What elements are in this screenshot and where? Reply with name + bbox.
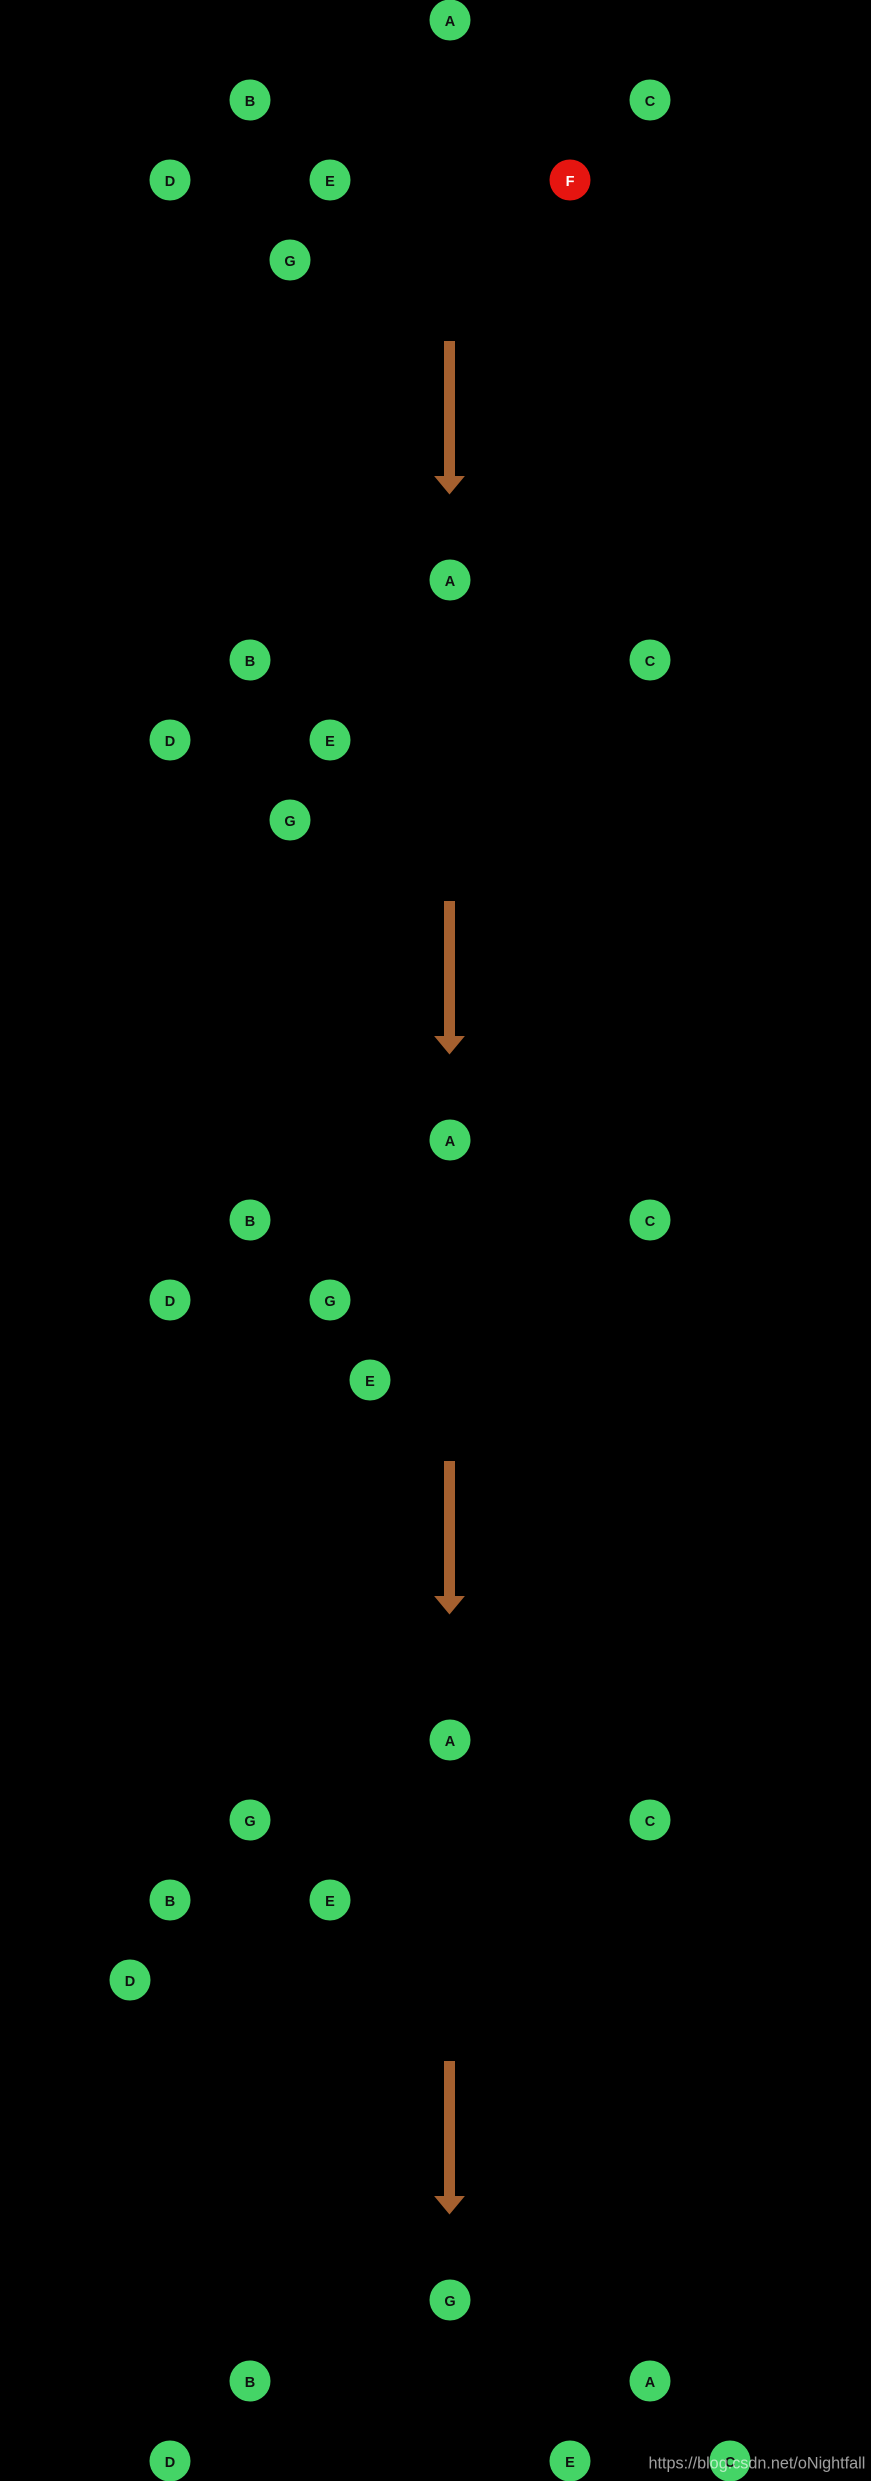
tree 1 node F (red) xyxy=(550,160,591,201)
svg-text:D: D xyxy=(125,1974,135,1990)
tree 3 node C xyxy=(630,1200,671,1241)
tree 5 node A xyxy=(630,2361,671,2402)
tree 4 node A xyxy=(430,1720,471,1761)
svg-text:C: C xyxy=(645,654,656,670)
svg-text:B: B xyxy=(245,1214,255,1230)
tree 1 node D xyxy=(150,160,191,201)
tree 1 node E xyxy=(310,160,351,201)
tree 5 node B xyxy=(230,2361,271,2402)
tree 2 node G xyxy=(270,800,311,841)
svg-text:B: B xyxy=(245,94,255,110)
svg-text:G: G xyxy=(324,1294,335,1310)
svg-text:G: G xyxy=(284,254,295,270)
tree 4 node E xyxy=(310,1880,351,1921)
svg-text:D: D xyxy=(165,174,175,190)
svg-text:C: C xyxy=(645,1814,656,1830)
svg-text:E: E xyxy=(365,1374,375,1390)
arrow 2 xyxy=(434,901,465,1055)
svg-text:A: A xyxy=(445,14,456,30)
svg-text:E: E xyxy=(325,174,335,190)
tree 2 node E xyxy=(310,720,351,761)
tree 3 node A xyxy=(430,1120,471,1161)
svg-text:E: E xyxy=(325,1894,335,1910)
tree 1 node G xyxy=(270,240,311,281)
svg-text:A: A xyxy=(645,2375,656,2391)
tree 2 node C xyxy=(630,640,671,681)
svg-text:B: B xyxy=(165,1894,175,1910)
tree 5 node E xyxy=(550,2441,591,2481)
tree 3 node B xyxy=(230,1200,271,1241)
tree 4 node B xyxy=(150,1880,191,1921)
svg-text:A: A xyxy=(445,574,456,590)
arrow 4 xyxy=(434,2061,465,2215)
arrow 1 xyxy=(434,341,465,495)
svg-text:B: B xyxy=(245,2375,255,2391)
tree 1 node C xyxy=(630,80,671,121)
tree 2 node D xyxy=(150,720,191,761)
tree 4 node D xyxy=(110,1960,151,2001)
svg-text:D: D xyxy=(165,734,175,750)
svg-text:B: B xyxy=(245,654,255,670)
tree 3 node G xyxy=(310,1280,351,1321)
tree 3 node D xyxy=(150,1280,191,1321)
svg-text:D: D xyxy=(165,2455,175,2471)
svg-text:https://blog.csdn.net/oNightfa: https://blog.csdn.net/oNightfall xyxy=(649,2455,866,2473)
svg-text:C: C xyxy=(645,1214,656,1230)
svg-text:E: E xyxy=(565,2455,575,2471)
tree 5 node G xyxy=(430,2280,471,2321)
svg-text:G: G xyxy=(284,814,295,830)
tree 5 node D xyxy=(150,2441,191,2481)
tree 2 node A xyxy=(430,560,471,601)
svg-text:F: F xyxy=(566,174,575,190)
tree 2 node B xyxy=(230,640,271,681)
tree 1 node A xyxy=(430,0,471,41)
arrow 3 xyxy=(434,1461,465,1615)
svg-text:G: G xyxy=(244,1814,255,1830)
svg-text:G: G xyxy=(444,2294,455,2310)
tree 1 node B xyxy=(230,80,271,121)
svg-text:A: A xyxy=(445,1734,456,1750)
svg-text:C: C xyxy=(645,94,656,110)
svg-text:E: E xyxy=(325,734,335,750)
tree 5 node C xyxy=(710,2441,751,2481)
svg-text:D: D xyxy=(165,1294,175,1310)
tree 4 node G xyxy=(230,1800,271,1841)
tree 3 node E xyxy=(350,1360,391,1401)
svg-text:A: A xyxy=(445,1134,456,1150)
tree 4 node C xyxy=(630,1800,671,1841)
